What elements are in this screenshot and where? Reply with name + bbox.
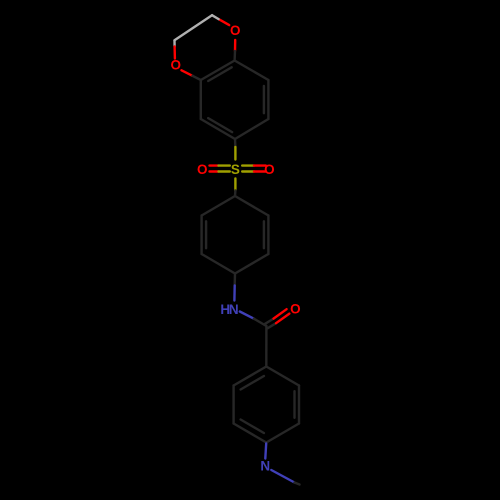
svg-text:S: S	[231, 162, 240, 177]
bond C3-O4 (bright C half)	[173, 40, 176, 46]
svg-text:O: O	[290, 301, 301, 316]
bottom ring edge UR-LR	[298, 386, 300, 424]
bond C6-S (dark half)	[234, 139, 237, 147]
svg-text:N: N	[229, 302, 239, 317]
top ring inner double C7=C8	[263, 86, 265, 113]
bottom ring inner double LL=B	[241, 420, 264, 434]
middle ring edge C3p-C4p	[235, 254, 268, 274]
bond C4p-N amide (blue half)	[233, 286, 236, 301]
svg-text:N: N	[260, 458, 270, 473]
top benzene ring edge C7-C6	[235, 119, 268, 139]
bond C3-O4 (red half)	[173, 47, 176, 59]
bond C4p-N amide (dark half)	[233, 274, 236, 286]
middle ring inner double C5p=C6p	[205, 221, 207, 248]
middle ring edge C4p-C5p	[202, 254, 235, 274]
middle ring edge C6p-C1p	[202, 196, 235, 216]
bond Npy-CH3 (dark tip)	[295, 483, 300, 485]
sulfonyl S=O left lower line	[210, 170, 219, 172]
sulfonyl S=O right upper line	[242, 164, 254, 166]
bond B-Npy (blue)	[264, 444, 267, 459]
top benzene ring edge C4a-C8a	[201, 61, 235, 81]
bond C2-C3 (bright CH2-CH2)	[175, 15, 213, 40]
top benzene ring edge C6-C5	[201, 119, 235, 139]
bottom ring edge B-LL	[234, 424, 267, 443]
bottom ring inner double UR=LR	[293, 391, 295, 418]
svg-text:O: O	[171, 57, 182, 72]
middle ring edge C1p-C2p	[235, 196, 268, 216]
bond O4-C4a (dark half)	[193, 76, 201, 80]
middle ring inner double C2p=C3p	[263, 221, 265, 248]
bond N-C amide (blue half)	[240, 312, 254, 319]
bottom ring edge LR-B	[266, 424, 299, 443]
bottom ring edge UL-T	[234, 367, 267, 386]
amide C=O lower line dark lead	[268, 323, 276, 328]
sulfonyl S=O right lower line	[242, 170, 254, 172]
bond C6-S (olive half)	[234, 147, 236, 160]
middle ring edge C5p-C6p	[200, 216, 202, 255]
bond B-Npy (dark lead)	[265, 443, 267, 444]
top ring inner double C5=C6	[208, 118, 232, 132]
top benzene ring edge C8-C7	[267, 80, 269, 119]
bottom ring edge LL-UL	[232, 386, 234, 424]
svg-text:O: O	[264, 162, 275, 177]
svg-text:O: O	[197, 162, 208, 177]
bond O1-C2 (red half)	[219, 19, 230, 25]
bond O4-C4a (red half)	[182, 70, 193, 76]
bond Npy-CH3 (blue)	[271, 470, 294, 483]
top benzene ring edge C8a-C8	[235, 61, 269, 81]
bond S-C1p (olive half)	[234, 179, 236, 191]
amide C=O upper line dark lead	[265, 319, 273, 324]
amide C=O upper line red	[274, 309, 287, 318]
bond O1-C8a (red half)	[234, 40, 237, 51]
middle ring edge C2p-C3p	[267, 216, 269, 255]
bottom ring inner double UL=T	[241, 376, 264, 390]
amide C=O lower line red	[276, 314, 289, 324]
bottom ring edge T-UR	[266, 367, 299, 386]
svg-text:O: O	[230, 23, 241, 38]
sulfonyl S=O left upper line	[210, 164, 219, 166]
bond N-C amide (dark half)	[254, 319, 267, 326]
bond S-C1p (dark half)	[234, 191, 237, 197]
top ring inner double C4a=C8a	[208, 67, 232, 81]
bond O1-C8a (dark half)	[233, 51, 236, 61]
bond Cam-T bottom ring attach	[265, 326, 268, 367]
bond O1-C2 (bright C half)	[212, 15, 219, 19]
top benzene ring edge C5-C4a	[200, 80, 202, 119]
